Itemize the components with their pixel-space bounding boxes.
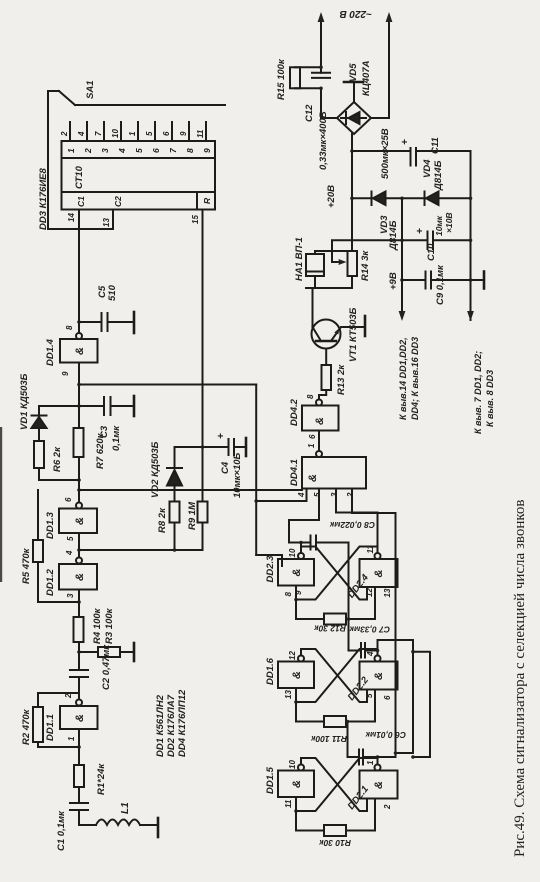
node C11 top: [350, 149, 354, 153]
capacitor C11: [352, 148, 471, 166]
svg-text:DD4; К выв.16 DD3: DD4; К выв.16 DD3: [410, 337, 420, 420]
capacitor C2: [70, 642, 88, 677]
svg-text:5: 5: [313, 492, 322, 497]
svg-text:DD4.1: DD4.1: [289, 459, 300, 486]
svg-text:DD2 К176ЛА7: DD2 К176ЛА7: [166, 694, 177, 757]
svg-text:10мк: 10мк: [434, 215, 444, 236]
node C9 gnd: [469, 278, 473, 282]
inductor L1: [79, 820, 140, 826]
svg-text:8: 8: [284, 592, 293, 597]
wire input loop: [296, 600, 324, 620]
svg-text:7: 7: [168, 147, 178, 153]
svg-text:СТ10: СТ10: [74, 165, 85, 189]
wire R12 bottom loop: [346, 587, 375, 619]
svg-text:4: 4: [77, 131, 86, 137]
node R5 right / drop D1: [77, 488, 81, 492]
svg-text:10мк×10Б: 10мк×10Б: [232, 452, 243, 498]
cross coupling DD1.5/DD2.1: [296, 758, 378, 811]
svg-text:3: 3: [100, 148, 110, 153]
svg-text:10: 10: [288, 760, 297, 769]
svg-text:2: 2: [383, 804, 392, 810]
node R5 left: [77, 600, 81, 604]
svg-text:&: &: [314, 417, 326, 425]
diode VD1: [32, 406, 80, 428]
bridge VD5: [337, 102, 371, 134]
svg-text:6: 6: [151, 148, 161, 153]
svg-text:11: 11: [366, 545, 375, 554]
svg-text:12: 12: [288, 651, 297, 660]
node VD2 tee: [173, 548, 177, 552]
switch SA1 arm: [48, 91, 75, 229]
node R6 branch: [77, 478, 81, 482]
wire drop to R-bus: [79, 549, 203, 551]
svg-text:R3 100к: R3 100к: [104, 607, 115, 644]
svg-text:6: 6: [308, 434, 317, 439]
svg-text:8: 8: [185, 148, 195, 153]
ground for C3: [133, 396, 136, 416]
mains line 1: [318, 12, 337, 118]
resistor R3: [79, 647, 134, 657]
svg-text:R: R: [202, 197, 212, 204]
wiper R14: [332, 240, 402, 265]
svg-text:2: 2: [83, 148, 93, 154]
bus mid (Y256): [255, 385, 257, 556]
svg-text:С3: С3: [99, 425, 110, 438]
node C5: [77, 320, 81, 324]
svg-text:9: 9: [61, 371, 70, 376]
svg-text:4: 4: [117, 148, 127, 154]
svg-text:2: 2: [60, 131, 69, 137]
svg-text:R15 100к: R15 100к: [276, 58, 287, 100]
svg-text:&: &: [307, 474, 319, 482]
svg-text:0,33мк×400В: 0,33мк×400В: [318, 111, 329, 170]
node C4: [201, 445, 205, 449]
resistor R7: [74, 428, 84, 457]
capacitor C4: [203, 439, 247, 455]
resistor R11: [324, 716, 346, 727]
pin 13 lead: [48, 210, 113, 230]
svg-text:R9 1М: R9 1М: [187, 501, 198, 530]
trimmer R14: [315, 251, 357, 276]
svg-text:4: 4: [366, 651, 375, 657]
svg-text:С10: С10: [426, 243, 437, 261]
wire R11 bottom loop: [346, 690, 375, 722]
svg-text:НА1 ВП-1: НА1 ВП-1: [294, 237, 305, 281]
sounder HA1: [306, 251, 324, 288]
wire R8 line: [174, 523, 176, 551]
diode VD2: [167, 447, 203, 486]
node input DD1.1: [77, 745, 81, 749]
svg-text:+: +: [216, 433, 227, 439]
svg-text:9: 9: [202, 148, 212, 153]
svg-text:R1*24к: R1*24к: [96, 763, 107, 795]
svg-text:1: 1: [66, 148, 76, 153]
resistor R10: [324, 825, 346, 836]
capacitor C9: [402, 272, 471, 289]
svg-text:Д814Б: Д814Б: [433, 160, 444, 191]
node C10 gnd: [469, 239, 473, 243]
svg-text:DD1.6: DD1.6: [265, 657, 276, 685]
svg-text:VD5: VD5: [348, 63, 359, 82]
inverter DD1.2: [59, 533, 97, 590]
svg-text:&: &: [291, 568, 303, 576]
node input DD1.5: [294, 809, 298, 813]
svg-text:R2 470к: R2 470к: [21, 708, 32, 745]
switch SA1 bus: [75, 104, 225, 106]
node C9 rail: [400, 278, 404, 282]
svg-text:DD1 К561ЛН2: DD1 К561ЛН2: [155, 694, 166, 757]
svg-text:VD4: VD4: [422, 159, 433, 178]
capacitor C6: [348, 722, 396, 765]
ground for C5: [133, 312, 136, 333]
resistor R5: [33, 490, 43, 562]
svg-text:510: 510: [107, 284, 118, 301]
counter DD3 box: [62, 141, 216, 210]
gate DD4.2: [302, 400, 339, 431]
wire C7/C8 junction line: [348, 543, 350, 620]
svg-text:С2: С2: [113, 196, 123, 207]
svg-text:12: 12: [365, 588, 374, 597]
resistor R6: [34, 428, 44, 468]
resistor R1: [74, 747, 84, 787]
node drop D2: [77, 383, 81, 387]
counter output numbers: [66, 147, 212, 154]
mains line 2: [371, 12, 392, 118]
ground symbol on bus: [471, 272, 485, 289]
capacitor C3: [79, 397, 134, 415]
svg-text:13: 13: [284, 690, 293, 699]
resistor R4: [74, 590, 84, 643]
svg-text:DD4.2: DD4.2: [289, 398, 300, 426]
svg-text:&: &: [74, 714, 86, 722]
wire line A to pin2: [352, 489, 396, 758]
wire: [78, 810, 80, 825]
svg-text:0,1мк: 0,1мк: [111, 425, 122, 451]
svg-text:R14 3к: R14 3к: [360, 250, 371, 281]
svg-text:Д814Б: Д814Б: [388, 220, 399, 251]
wire R10 bottom loop: [346, 799, 375, 831]
node R11 bottom / C6: [346, 720, 350, 724]
rail +9V: [399, 198, 406, 321]
wire R6 riser: [39, 468, 79, 480]
svg-text:3: 3: [66, 593, 75, 598]
svg-text:8: 8: [306, 394, 315, 399]
node input DD1.6: [294, 700, 298, 704]
wire: [78, 363, 80, 429]
node R15 right: [319, 65, 323, 69]
svg-text:&: &: [291, 780, 303, 788]
svg-text:К выв. 7 DD1, DD2;: К выв. 7 DD1, DD2;: [473, 351, 483, 434]
svg-text:&: &: [373, 569, 385, 577]
zener VD3: [352, 192, 426, 206]
svg-text:VD1 КД503Б: VD1 КД503Б: [19, 373, 30, 430]
svg-text:VT1 КТ503Б: VT1 КТ503Б: [348, 307, 359, 362]
node R15 left: [319, 87, 323, 91]
svg-text:15: 15: [191, 215, 200, 224]
svg-text:&: &: [373, 672, 385, 680]
svg-text:С6 0,01мк: С6 0,01мк: [365, 730, 406, 740]
svg-text:L1: L1: [120, 802, 131, 814]
counter output stubs: [70, 122, 206, 141]
svg-text:+9В: +9В: [388, 272, 399, 290]
wire feedback left: [38, 742, 79, 747]
resistor R13: [322, 349, 332, 391]
svg-text:11: 11: [196, 129, 205, 138]
svg-text:2: 2: [64, 693, 73, 699]
resistor R8: [170, 486, 180, 523]
node drop A: [77, 548, 81, 552]
svg-text:&: &: [291, 671, 303, 679]
svg-text:С1 0,1мк: С1 0,1мк: [56, 810, 67, 851]
svg-text:2: 2: [346, 492, 355, 498]
svg-text:&: &: [74, 347, 86, 355]
svg-text:+: +: [415, 228, 426, 234]
node C3: [77, 404, 81, 408]
inverter DD1.4: [60, 210, 98, 363]
svg-text:10: 10: [111, 129, 120, 138]
svg-text:+: +: [400, 139, 411, 145]
wire DD4.2 out: [319, 390, 326, 400]
ground bar bridge: [344, 82, 363, 102]
svg-text:13: 13: [102, 218, 111, 227]
svg-text:К выв. 8 DD3: К выв. 8 DD3: [485, 370, 495, 427]
wire line C lower: [413, 652, 430, 757]
svg-text:10: 10: [288, 548, 297, 557]
rail +20V: [351, 134, 353, 251]
svg-text:С2 0,47мк: С2 0,47мк: [101, 644, 112, 690]
svg-text:5: 5: [66, 536, 75, 541]
svg-text:8: 8: [65, 325, 74, 330]
svg-text:500мк×25В: 500мк×25В: [380, 128, 391, 179]
svg-text:3: 3: [330, 492, 339, 497]
wire drop D2 to bus: [79, 384, 256, 386]
wire DD2.2 output: [377, 640, 379, 656]
gate DD1.5: [278, 765, 314, 812]
gate DD2.4: [360, 553, 398, 587]
svg-text:R13 2к: R13 2к: [336, 364, 347, 395]
node VD4 gnd: [469, 197, 473, 201]
wire drop D1 to DD4.1: [79, 489, 302, 491]
capacitor C1: [70, 787, 88, 810]
wire DD2.1 output: [377, 757, 379, 765]
inverter DD1.3: [59, 457, 97, 533]
wire input loop: [296, 702, 324, 722]
svg-text:R5 470к: R5 470к: [21, 547, 32, 584]
svg-text:1: 1: [128, 131, 137, 136]
gate DD2.3: [278, 553, 314, 600]
svg-text:С1: С1: [76, 196, 86, 207]
node input DD2.3: [294, 598, 298, 602]
ground bus 0V: [467, 151, 474, 321]
svg-text:С12: С12: [304, 104, 315, 122]
scan edge artifact: [0, 427, 2, 582]
node pin4 riser: [254, 499, 258, 503]
ground for R3: [133, 643, 136, 661]
svg-text:6: 6: [383, 695, 392, 700]
svg-text:С8 0,022мк: С8 0,022мк: [329, 520, 375, 530]
label DD types: [155, 689, 188, 757]
transistor VT1: [312, 288, 366, 349]
svg-text:DD1.4: DD1.4: [45, 338, 56, 366]
gate DD1.6: [278, 656, 314, 703]
node zener top: [350, 197, 354, 201]
node R3 tap: [77, 650, 81, 654]
svg-text:13: 13: [383, 588, 392, 597]
svg-text:&: &: [74, 573, 86, 581]
node R12 bottom / C7: [347, 617, 351, 621]
svg-text:4: 4: [297, 492, 306, 498]
ground for VT1: [364, 316, 367, 336]
svg-text:5: 5: [134, 148, 144, 153]
capacitor C12: [312, 73, 330, 78]
svg-text:К выв.14 DD1,DD2,: К выв.14 DD1,DD2,: [398, 337, 408, 420]
svg-text:DD4 К176ЛП12: DD4 К176ЛП12: [177, 689, 188, 757]
svg-text:7: 7: [94, 131, 103, 136]
svg-text:Рис.49. Схема сигнализатора: Рис.49. Схема сигнализатора с селекцией …: [512, 500, 528, 857]
svg-text:VD2 КД503Б: VD2 КД503Б: [150, 441, 161, 498]
svg-text:5: 5: [145, 131, 154, 136]
bus mid hook to DD2.3: [256, 555, 282, 566]
wire R5 left riser: [38, 562, 79, 602]
wire C8 to pin5: [289, 489, 319, 543]
svg-text:6: 6: [162, 131, 171, 136]
svg-text:5: 5: [365, 693, 374, 698]
resistor R2: [33, 693, 79, 742]
svg-text:R8 2к: R8 2к: [157, 507, 168, 533]
cross coupling DD1.6/DD2.2: [296, 649, 378, 702]
svg-text:R10 30к: R10 30к: [319, 838, 351, 848]
wire DD2.3 output: [300, 543, 302, 554]
svg-text:DD1.3: DD1.3: [45, 511, 56, 539]
svg-text:+20В: +20В: [326, 185, 337, 208]
capacitor C5: [79, 313, 134, 331]
capacitor C8: [289, 536, 349, 550]
svg-text:С9 0,1мк: С9 0,1мк: [435, 264, 446, 305]
svg-text:DD1.5: DD1.5: [265, 766, 276, 794]
svg-text:11: 11: [284, 799, 293, 808]
svg-text:С11: С11: [430, 137, 441, 154]
svg-text:R4 100к: R4 100к: [92, 607, 103, 644]
rail HA1 left: [306, 276, 352, 288]
gate DD2.2: [360, 656, 398, 690]
resistor R9: [198, 502, 208, 551]
svg-text:DD2.3: DD2.3: [265, 555, 276, 583]
counter DD3 R cell: [197, 192, 215, 210]
capacitor C10: [402, 232, 471, 250]
svg-text:&: &: [373, 781, 385, 789]
svg-text:14: 14: [67, 213, 76, 222]
wire DD2.4 out to pin3: [336, 489, 378, 554]
capacitor C7: [349, 619, 378, 658]
svg-text:С7 0,33мк: С7 0,33мк: [349, 625, 390, 635]
svg-text:1: 1: [67, 736, 76, 741]
resistor R12: [324, 614, 346, 625]
gate DD4.1: [302, 431, 366, 489]
svg-text:9: 9: [294, 590, 303, 595]
ground for C4: [245, 438, 248, 456]
svg-text:1: 1: [307, 443, 316, 448]
svg-text:R12 30к: R12 30к: [314, 624, 346, 634]
zener VD4: [425, 192, 471, 206]
resistor R15: [290, 67, 321, 88]
svg-text:R11 100к: R11 100к: [310, 734, 347, 744]
svg-text:4: 4: [65, 550, 74, 556]
svg-text:×10В: ×10В: [444, 212, 454, 233]
svg-text:6: 6: [64, 497, 73, 502]
cross coupling DD2.3/DD2.4: [296, 547, 378, 600]
svg-text:SA1: SA1: [85, 81, 96, 99]
svg-text:&: &: [74, 517, 86, 525]
node +9V: [400, 197, 404, 201]
wire input loop: [296, 811, 324, 831]
wire line B: [378, 640, 414, 753]
ground for L1: [140, 818, 158, 837]
svg-text:DD1.1: DD1.1: [45, 714, 56, 741]
counter pin numbers: [60, 129, 205, 138]
svg-text:КЦ407А: КЦ407А: [361, 60, 372, 96]
svg-text:R6 2к: R6 2к: [52, 446, 63, 472]
svg-text:С4: С4: [220, 461, 231, 474]
svg-text:1: 1: [366, 760, 375, 765]
svg-text:~220 В: ~220 В: [339, 8, 372, 19]
gate DD2.1: [360, 765, 398, 799]
svg-text:DD1.2: DD1.2: [45, 568, 56, 596]
inverter DD1.1: [60, 677, 98, 747]
reset bus R (DD3 pin 15): [202, 210, 204, 502]
svg-text:9: 9: [179, 131, 188, 136]
wire pin4 riser: [256, 489, 306, 502]
node C10 rail: [400, 239, 404, 243]
